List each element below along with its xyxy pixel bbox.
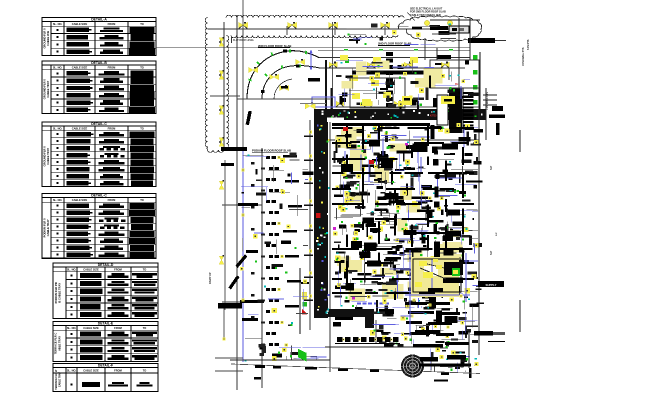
svg-text:U PH WALL PTS: U PH WALL PTS — [522, 47, 525, 66]
svg-text:PODIUM FLR 0: PODIUM FLR 0 — [42, 218, 46, 237]
svg-text:DETAIL-C: DETAIL-C — [91, 194, 107, 198]
svg-text:CABLE TRAY: CABLE TRAY — [59, 372, 62, 388]
svg-text:TO: TO — [140, 198, 144, 202]
svg-text:FROM: FROM — [108, 65, 116, 69]
svg-text:TO: TO — [140, 22, 144, 26]
svg-text:S.P: S.P — [489, 251, 493, 255]
svg-text:S.P: S.P — [496, 232, 498, 236]
svg-text:FH: FH — [455, 83, 458, 86]
svg-text:TO: TO — [143, 326, 147, 330]
svg-text:PODIUM FLOOR ROOF SLAB: PODIUM FLOOR ROOF SLAB — [252, 149, 291, 153]
svg-text:GROUND FLR 0: GROUND FLR 0 — [42, 79, 46, 100]
svg-text:CABLE SIZE: CABLE SIZE — [72, 65, 88, 69]
svg-text:3 PH WALL PTS: 3 PH WALL PTS — [486, 92, 489, 110]
svg-text:CABLE SIZE: CABLE SIZE — [72, 126, 88, 130]
svg-text:CABLE SIZE: CABLE SIZE — [83, 267, 99, 271]
svg-text:SL. NO.: SL. NO. — [67, 326, 77, 330]
svg-text:SL. NO.: SL. NO. — [67, 267, 77, 271]
svg-text:FROM: FROM — [108, 126, 116, 130]
svg-text:CABLE SIZE: CABLE SIZE — [83, 369, 99, 373]
svg-text:TO: TO — [140, 126, 144, 130]
svg-text:SUPPLY: SUPPLY — [486, 283, 497, 287]
svg-text:SL. NO.: SL. NO. — [53, 22, 63, 26]
svg-text:ABLE TRAY: ABLE TRAY — [58, 336, 62, 351]
svg-text:FROM: FROM — [108, 198, 116, 202]
svg-text:DETAIL-B: DETAIL-B — [91, 61, 107, 65]
svg-text:DETAIL-D: DETAIL-D — [98, 263, 114, 267]
svg-text:S.P: S.P — [489, 166, 493, 170]
svg-text:DETAIL-A: DETAIL-A — [91, 18, 107, 22]
svg-text:FROM: FROM — [108, 22, 116, 26]
svg-text:DETAIL-C: DETAIL-C — [91, 122, 107, 126]
svg-text:TERRACE FLR C: TERRACE FLR C — [54, 333, 58, 355]
svg-text:CABLE TRAY: CABLE TRAY — [46, 148, 50, 165]
svg-text:FROM: FROM — [114, 369, 122, 373]
svg-text:CABLE W.B: CABLE W.B — [46, 31, 50, 46]
svg-text:DETAIL-F: DETAIL-F — [98, 364, 113, 368]
svg-text:B CABLE TRAY: B CABLE TRAY — [58, 283, 62, 303]
svg-text:SL. NO.: SL. NO. — [53, 126, 63, 130]
svg-text:TO: TO — [140, 65, 144, 69]
svg-text:FROM: FROM — [114, 326, 122, 330]
svg-text:GROUND FLR 0: GROUND FLR 0 — [42, 146, 46, 167]
svg-text:SL. NO.: SL. NO. — [53, 65, 63, 69]
svg-text:CABLE SIZE: CABLE SIZE — [83, 326, 99, 330]
svg-text:CABLE TRAY: CABLE TRAY — [46, 219, 50, 236]
svg-text:CABLE TRAY DETAIL W.B: CABLE TRAY DETAIL W.B — [410, 14, 441, 17]
svg-text:TERRACE FLR LT: TERRACE FLR LT — [55, 369, 58, 390]
svg-text:CABLE TRAY: CABLE TRAY — [46, 81, 50, 98]
svg-text:CABLE SIZE: CABLE SIZE — [72, 198, 88, 202]
svg-text:TO: TO — [143, 369, 147, 373]
svg-text:S PH PTS: S PH PTS — [528, 39, 530, 50]
svg-text:DETAIL-E: DETAIL-E — [98, 322, 114, 326]
svg-text:GROUND FLR 0: GROUND FLR 0 — [42, 28, 46, 49]
svg-text:CABLE SIZE: CABLE SIZE — [72, 22, 88, 26]
svg-text:SL. NO.: SL. NO. — [53, 198, 63, 202]
svg-text:FLAT ROOF LEVEL: FLAT ROOF LEVEL — [233, 39, 255, 42]
svg-text:TO: TO — [143, 267, 147, 271]
svg-text:PODIUM FLR PD: PODIUM FLR PD — [54, 282, 58, 303]
svg-text:FROM: FROM — [114, 267, 122, 271]
svg-text:RAMP UP: RAMP UP — [209, 272, 212, 284]
svg-text:SL. NO.: SL. NO. — [67, 369, 77, 373]
